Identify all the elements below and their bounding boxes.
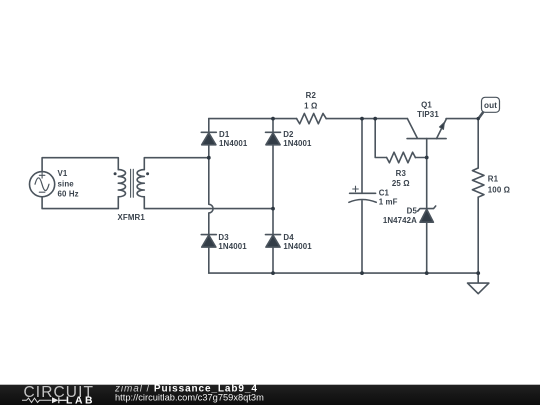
wire C1 bottom	[361, 201, 363, 273]
phase dot primary	[114, 172, 117, 175]
junction C1 / bottom rail	[360, 271, 364, 275]
node out	[477, 117, 480, 120]
wire bottom rail	[209, 272, 479, 274]
svg-text:1N4001: 1N4001	[283, 242, 312, 251]
diode D2	[266, 132, 281, 145]
junction R1 / ground / bottom rail	[476, 271, 480, 275]
diode D4	[266, 235, 281, 248]
wire secondary bottom to bridge	[144, 197, 273, 209]
svg-text:100 Ω: 100 Ω	[488, 185, 510, 194]
wire zener to rail	[426, 222, 428, 273]
junction C1 / top rail	[360, 117, 364, 121]
wire secondary top to bridge	[144, 158, 209, 170]
svg-text:1 mF: 1 mF	[379, 198, 398, 207]
diode D3	[201, 235, 216, 248]
junction base / R3 / D5 node	[425, 156, 429, 160]
junction R3 / top rail	[373, 117, 377, 121]
svg-text:1N4001: 1N4001	[283, 139, 312, 148]
svg-text:LAB: LAB	[66, 396, 95, 405]
svg-text:out: out	[484, 101, 497, 110]
svg-text:Q1: Q1	[421, 101, 432, 110]
svg-text:25 Ω: 25 Ω	[392, 179, 410, 188]
zener diode D5	[418, 206, 436, 222]
junction secondary-top / left branch	[207, 156, 211, 160]
svg-text:TIP31: TIP31	[417, 110, 439, 119]
svg-text:R1: R1	[488, 175, 499, 184]
transistor Q1	[407, 119, 446, 158]
svg-text:D3: D3	[218, 233, 229, 242]
capacitor C1	[349, 186, 376, 202]
wire source top	[42, 158, 118, 172]
svg-text:D2: D2	[283, 130, 294, 139]
diode D1	[201, 132, 216, 145]
svg-text:V1: V1	[58, 169, 68, 178]
transformer core	[131, 169, 134, 197]
wire source bottom	[42, 197, 118, 209]
logo resistor-diode glyph	[22, 398, 52, 402]
svg-text:sine: sine	[58, 179, 75, 188]
wire top rail	[209, 118, 297, 120]
wire emitter to out	[446, 118, 478, 120]
resistor R3	[387, 152, 416, 163]
out flag	[478, 97, 499, 118]
svg-text:R2: R2	[306, 91, 317, 100]
svg-text:XFMR1: XFMR1	[118, 213, 146, 222]
svg-text:1N4742A: 1N4742A	[383, 216, 417, 225]
wire base to zener	[426, 158, 428, 209]
phase dot secondary	[146, 172, 149, 175]
resistor R2	[297, 113, 327, 123]
transformer XFMR1 primary winding	[118, 170, 125, 197]
wire bridge left branch with hop	[209, 119, 213, 274]
svg-text:D1: D1	[219, 130, 230, 139]
wire out down to R1	[477, 119, 479, 168]
resistor R1	[472, 168, 484, 197]
junction D5 / bottom rail	[425, 271, 429, 275]
junction right branch / bottom rail	[271, 271, 275, 275]
svg-text:1 Ω: 1 Ω	[304, 102, 317, 111]
svg-text:D4: D4	[283, 233, 294, 242]
svg-text:1N4001: 1N4001	[218, 242, 247, 251]
wire C1 branch top	[361, 119, 363, 194]
svg-text:1N4001: 1N4001	[219, 139, 248, 148]
svg-text:C1: C1	[379, 188, 390, 197]
svg-text:D5: D5	[407, 207, 418, 216]
wire R2 to collector	[326, 118, 407, 120]
voltage source V1	[29, 172, 54, 197]
wire R3 to base node	[415, 157, 426, 159]
wire R3 branch	[375, 119, 386, 158]
ground	[468, 273, 489, 294]
junction secondary-bottom / right branch	[271, 207, 275, 211]
svg-text:R3: R3	[396, 169, 407, 178]
wire R1 to rail	[477, 197, 479, 273]
junction right branch / top rail	[271, 117, 275, 121]
svg-text:http://circuitlab.com/c37g759x: http://circuitlab.com/c37g759x8qt3m	[115, 392, 264, 402]
transformer XFMR1 secondary winding	[137, 170, 144, 197]
svg-text:60 Hz: 60 Hz	[58, 190, 79, 199]
wire bridge right branch	[272, 119, 274, 274]
